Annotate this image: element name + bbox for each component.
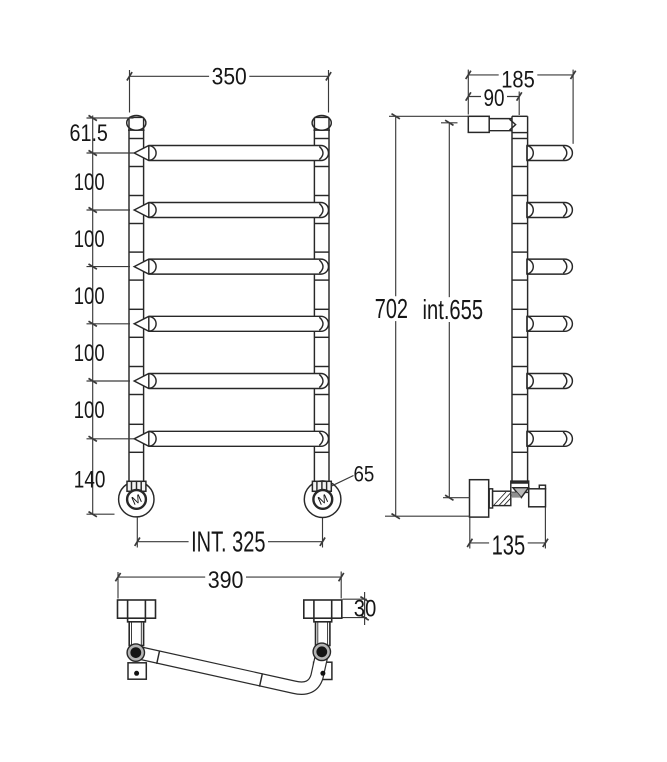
svg-text:int.655: int.655 <box>423 294 484 325</box>
svg-text:100: 100 <box>74 169 105 196</box>
svg-text:90: 90 <box>484 85 505 112</box>
svg-text:61.5: 61.5 <box>70 120 108 147</box>
svg-text:140: 140 <box>74 467 106 494</box>
svg-text:100: 100 <box>74 226 105 253</box>
svg-text:65: 65 <box>354 461 375 486</box>
svg-text:100: 100 <box>74 397 105 424</box>
svg-text:100: 100 <box>74 283 105 310</box>
svg-text:702: 702 <box>375 293 408 324</box>
svg-text:350: 350 <box>212 63 247 90</box>
svg-text:100: 100 <box>74 340 105 367</box>
svg-text:185: 185 <box>501 67 535 94</box>
svg-text:INT. 325: INT. 325 <box>191 527 265 559</box>
svg-text:30: 30 <box>354 596 377 623</box>
svg-text:390: 390 <box>208 567 244 594</box>
svg-text:135: 135 <box>492 529 526 560</box>
